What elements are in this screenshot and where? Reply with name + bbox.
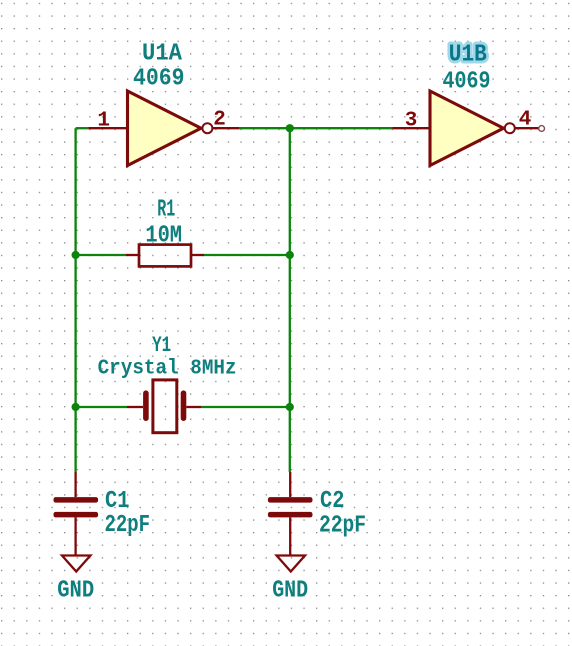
- Y1 left electrode plate: [143, 390, 149, 421]
- op-amp U1A inverter body: [128, 91, 213, 166]
- svg-text:22pF: 22pF: [105, 512, 151, 539]
- resistor R1 body: [139, 245, 191, 267]
- svg-text:2: 2: [213, 109, 226, 132]
- crystal Y1 body: [153, 380, 177, 433]
- Y1 left pin lead: [127, 406, 143, 408]
- svg-text:U1A: U1A: [142, 41, 183, 68]
- svg-text:4: 4: [519, 109, 532, 132]
- svg-text:GND: GND: [272, 577, 308, 604]
- svg-text:C2: C2: [320, 488, 345, 515]
- svg-text:4069: 4069: [133, 66, 185, 93]
- ground symbol GND2: [277, 556, 305, 572]
- junction: right bus / U1A output net: [286, 124, 294, 132]
- capacitor C2 bottom pin lead: [289, 517, 291, 555]
- Y1 right electrode plate: [181, 390, 187, 421]
- svg-text:4069: 4069: [443, 69, 491, 96]
- svg-text:22pF: 22pF: [319, 513, 366, 540]
- wire: R1 right: [204, 254, 290, 256]
- wire: Y1 right: [201, 406, 290, 408]
- svg-text:10M: 10M: [145, 223, 182, 250]
- U1A pin 1 lead: [88, 127, 127, 129]
- wire: U1A output to middle junction: [239, 127, 289, 129]
- svg-text:1: 1: [97, 110, 110, 133]
- capacitor C2 top plate: [268, 497, 313, 503]
- junction: right bus / Y1: [286, 403, 294, 411]
- wire: R1 left: [76, 254, 126, 256]
- Y1 right pin lead: [186, 406, 201, 408]
- U1A pin 2 lead: [213, 127, 240, 129]
- capacitor C2 bottom plate: [268, 512, 313, 518]
- capacitor C1 top plate: [54, 497, 99, 503]
- svg-text:R1: R1: [157, 197, 175, 224]
- capacitor C1 bottom plate: [54, 512, 99, 518]
- U1B pin 4 lead: [515, 127, 539, 129]
- ground symbol GND1: [62, 556, 90, 572]
- wire: right vertical bus: [289, 128, 291, 472]
- junction: left bus / R1: [72, 251, 80, 259]
- svg-text:Crystal 8MHz: Crystal 8MHz: [98, 358, 237, 381]
- junction: left bus / Y1: [72, 403, 80, 411]
- wire: Y1 left: [76, 406, 127, 408]
- capacitor C2 top pin lead: [289, 472, 291, 497]
- op-amp U1B inverter body: [430, 91, 515, 166]
- U1B pin 3 lead: [392, 127, 430, 129]
- capacitor C1 bottom pin lead: [74, 517, 76, 555]
- R1 right pin lead: [191, 254, 204, 256]
- capacitor C1 top pin lead: [74, 472, 76, 497]
- svg-text:3: 3: [405, 110, 418, 133]
- U1B pin 4 open-end marker: [539, 126, 545, 132]
- U1B reference label (highlighted): [449, 42, 487, 69]
- wire: left vertical bus: [74, 128, 76, 472]
- svg-text:Y1: Y1: [152, 333, 171, 358]
- svg-text:GND: GND: [57, 577, 94, 604]
- junction: right bus / R1: [286, 251, 294, 259]
- wire: U1A input horizontal from left bus corner: [76, 127, 89, 129]
- wire: middle junction to U1B input: [290, 127, 392, 129]
- R1 left pin lead: [126, 254, 139, 256]
- svg-text:U1B: U1B: [449, 42, 487, 69]
